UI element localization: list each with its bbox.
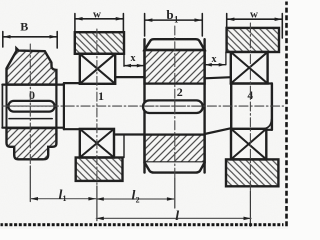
hub 0 lower hatched section: [7, 128, 57, 159]
gear 2 left face: [143, 39, 145, 172]
bearing 1 upper housing block: [75, 32, 124, 54]
shaft end face left: [1, 85, 3, 128]
dimension x left: [124, 64, 143, 68]
shaft step face after hub: [63, 83, 65, 129]
bearing 1 housing right edge upper: [123, 54, 125, 66]
centerline node 1: [96, 29, 98, 186]
gear 2 right face: [203, 39, 205, 172]
right edge tick marks: [285, 2, 288, 228]
bearing 1 lower X square: [80, 129, 114, 158]
centerline node 0: [29, 44, 31, 166]
horizontal shaft centerline: [2, 105, 284, 107]
bottom dotted border: [1, 223, 284, 226]
hub right face through bore: [55, 85, 57, 128]
bearing 1 upper X square: [80, 54, 115, 84]
extension line node 2: [174, 178, 176, 208]
centerline inside slot 0: [10, 105, 54, 107]
extension line node 4: [249, 191, 251, 226]
centerline node 2: [174, 26, 176, 178]
gear 2 upper cap: [145, 39, 205, 50]
gear 2 lower cap: [145, 162, 205, 172]
gear 2 upper hatched rim: [145, 50, 205, 84]
shaft seat bottom line bearing 4: [231, 129, 272, 131]
shaft seat top line bearing 4: [231, 82, 272, 84]
extension line node 1: [96, 186, 98, 221]
hub left face through bore: [6, 85, 8, 128]
shaft top line hub-to-bearing1: [64, 82, 80, 84]
dimension b1 (gear): [145, 14, 203, 37]
shoulder top line gear-bearing4: [205, 77, 232, 78]
key line under slot 0: [9, 118, 52, 120]
bearing 1 lower housing block: [76, 158, 123, 181]
vertical centerline inside slot 2: [174, 101, 176, 113]
dimension l: [96, 217, 251, 221]
dimension x right: [205, 52, 226, 66]
dimension l1: [31, 197, 96, 201]
keyway slot 0: [8, 101, 54, 112]
shaft bottom line hub-to-bearing1: [64, 128, 80, 130]
dimension w (bearing 1): [75, 14, 124, 32]
hub 0 upper hatched section: [7, 48, 57, 84]
centerline node 4: [249, 23, 251, 191]
bearing 1 housing right edge lower: [123, 135, 125, 158]
shoulder bottom line gear-bearing4: [205, 128, 232, 134]
keyway slot 2: [143, 100, 203, 113]
shaft end face right: [271, 84, 273, 130]
dimension w (bearing 4): [227, 14, 283, 39]
bearing 4 lower X square: [231, 129, 266, 160]
dimension B: [3, 32, 57, 49]
shaft step face at bearing 4: [230, 77, 232, 130]
shoulder top line bearing1-gear: [115, 76, 144, 78]
shaft bottom line through hub: [2, 127, 64, 129]
bearing 4 upper housing block: [227, 28, 279, 52]
shaft top line through hub: [2, 83, 64, 85]
dimension l2: [96, 197, 174, 201]
extension line node 0: [29, 166, 31, 202]
bearing 4 upper X square: [231, 52, 268, 84]
centerline inside slot 2: [145, 105, 202, 107]
bearing 4 lower housing block: [226, 159, 278, 186]
shoulder bottom line bearing1-gear: [114, 133, 145, 135]
pen hook at shaft end corner: [265, 120, 272, 129]
gear 2 lower hatched rim: [145, 135, 205, 163]
